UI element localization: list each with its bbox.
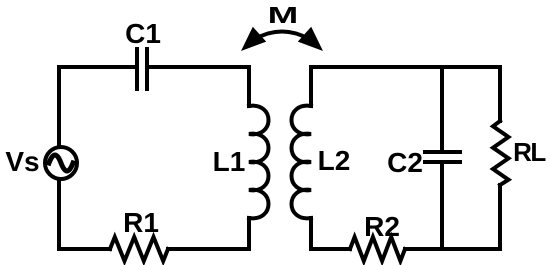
wire right vertical of left loop above L1 [247,67,251,106]
wire C2 branch upper [440,67,444,150]
wire left vertical of right loop above L2 [309,67,313,106]
wire bottom horizontal (right of R1) [168,247,249,251]
inductor L2 coil [292,106,312,219]
svg-text:C2: C2 [387,147,423,178]
wire left vertical (below Vs) [57,180,61,249]
wire left vertical of right loop below L2 [309,218,313,249]
svg-text:RL: RL [513,137,546,167]
wire bottom horizontal of right loop (right of R2) [405,247,500,251]
svg-text:M: M [268,2,299,28]
wire left vertical (top of Vs) [57,67,61,146]
svg-text:R2: R2 [364,211,400,242]
voltage source Vs circle [45,147,77,179]
mutual coupling arrow arc [255,32,309,40]
resistor R2 zigzag [350,237,405,261]
capacitor C1 plates [137,49,147,89]
wire top horizontal of right loop [311,65,500,69]
capacitor C2 plates [425,152,460,162]
svg-text:L2: L2 [318,145,351,176]
wire top horizontal (right of C1) [148,65,249,69]
wire bottom-left horizontal (left of R1) [59,247,110,251]
mutual coupling arrowhead left [241,27,266,51]
inductor L1 coil [249,106,269,219]
svg-text:C1: C1 [125,18,161,49]
svg-text:Vs: Vs [5,146,39,177]
wire right vertical of right loop below RL [498,185,502,249]
wire right vertical of left loop below L1 [247,218,251,249]
svg-text:L1: L1 [213,146,246,177]
svg-text:R1: R1 [123,207,159,238]
wire bottom horizontal of right loop (left of R2) [311,247,350,251]
wire right vertical of right loop above RL [498,67,502,121]
resistor RL zigzag [493,121,509,185]
wire C2 branch lower [440,163,444,249]
resistor R1 zigzag [110,237,168,261]
mutual coupling arrowhead right [298,27,323,51]
wire top-left horizontal (left of C1) [59,65,136,69]
voltage source Vs sine wave [49,155,73,171]
